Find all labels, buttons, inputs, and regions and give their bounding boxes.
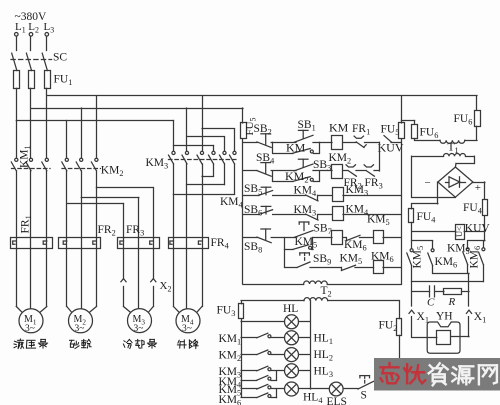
svg-text:ELS: ELS [327, 396, 347, 405]
secondary left wire [241, 300, 304, 302]
KM3 KM4 linkage dashed [169, 159, 239, 161]
series coil box rung5 [332, 231, 343, 245]
YH coil box [437, 331, 451, 345]
SC linkage dashed [11, 59, 52, 61]
wire KM2 pole to FR2 [81, 171, 83, 238]
interlock contact KM6 [346, 238, 348, 241]
pushbutton SB4 (stop) [243, 170, 257, 172]
selfhold branch wire [272, 142, 274, 153]
bus 1 (top) [47, 95, 477, 97]
wire [271, 170, 296, 172]
coil KM2 [332, 165, 343, 179]
motor M3 name 冷却泵 [123, 339, 132, 348]
char 泵 [150, 338, 155, 340]
thermal contact FR1 [354, 136, 363, 138]
lamp ELS [329, 382, 343, 396]
pushbutton SB8 (stop) [243, 237, 257, 239]
fuse FU2 [399, 301, 401, 319]
svg-text:HL: HL [283, 303, 298, 315]
pushbutton SB3 (start) [294, 164, 313, 171]
fuse FU5 left [242, 108, 244, 123]
DC negative to FU4 left [437, 182, 439, 204]
selfhold contact KM2 [273, 181, 293, 183]
contact KUV [384, 136, 391, 142]
switch SC [12, 53, 17, 70]
resistor R [435, 291, 444, 293]
char 却 [135, 340, 140, 342]
wire [343, 142, 356, 144]
svg-text:KUV: KUV [378, 140, 404, 154]
branch wires KM2 outputs to FR3 [96, 187, 153, 189]
connector X2 and motor M3 [123, 249, 125, 279]
DC positive to FU4 right [473, 182, 485, 184]
motor M2 [66, 249, 68, 307]
motor M4 [173, 249, 175, 307]
motor M4 [176, 309, 200, 333]
contact KM2 + lamp HL2 [241, 354, 257, 356]
transformer T1 primary [440, 140, 465, 143]
char 忘 [388, 363, 390, 367]
wire fuse to KM1 [46, 88, 48, 158]
motor M2 name 砂轮 [70, 340, 80, 348]
char 网 [478, 365, 480, 384]
chuck bridge contact KM5 left [412, 240, 433, 242]
fuse FU5 right [401, 96, 403, 123]
pushbutton SB7 (start) [294, 231, 313, 238]
bus 2 (mid) [31, 108, 243, 110]
pushbutton SB6 [243, 214, 259, 216]
watermark text 忘忧资源网 [381, 363, 399, 383]
svg-text:R: R [448, 296, 456, 308]
wire S to FU2 [375, 389, 400, 391]
wire L2 to SC [30, 36, 32, 50]
watermark band [374, 358, 500, 391]
capacitor C [412, 291, 430, 293]
thermal contact FR3 [364, 165, 373, 167]
motor M4 name 升降 [177, 340, 186, 348]
svg-text:C: C [427, 296, 435, 308]
interlock contact KM3 [306, 214, 319, 220]
lamp left rail [241, 319, 243, 397]
svg-text:KM: KM [286, 140, 306, 154]
wire KM2 pole to FR2 [96, 171, 98, 238]
contactor KM4 feeds (phase swap) [202, 128, 235, 130]
fuse FU6 right [476, 96, 478, 110]
contactor KM2 drops from buses [66, 121, 68, 158]
chuck bridge contact KM6 left [432, 241, 434, 249]
contactor KM4 contacts [209, 151, 216, 164]
svg-text:S: S [361, 389, 367, 401]
svg-text:SC: SC [53, 52, 67, 64]
switch S blade [358, 381, 375, 389]
pushbutton SB5 [243, 195, 259, 197]
motor M1 [19, 309, 43, 333]
svg-text:+: + [475, 182, 481, 194]
char 液 [14, 341, 17, 342]
motor M3 [128, 309, 152, 333]
KM3/KM4 output crossover to FR4 [202, 164, 204, 176]
node column rungs1-2 [379, 142, 381, 171]
wire [271, 142, 296, 144]
char 忧 [406, 364, 408, 383]
junction column to rung6 [284, 249, 286, 267]
motor M2 [69, 309, 93, 333]
control left rail [242, 140, 244, 285]
char 冷 [124, 340, 125, 343]
wire KM1 pole to FR1 [46, 171, 48, 238]
lamp ELS and switch S [310, 388, 329, 390]
char 压 [27, 339, 35, 341]
svg-text:−: − [425, 177, 431, 189]
interlock contact KM5 [341, 267, 343, 270]
coil KM3 [333, 188, 344, 202]
control bottom rail [243, 284, 304, 286]
char 轮 [82, 340, 87, 342]
pushbutton SB2 (stop) [243, 142, 257, 144]
svg-text:3~: 3~ [25, 324, 35, 334]
fuse FU6 left [401, 120, 414, 122]
coil KM5 [374, 231, 384, 244]
electromagnetic chuck YH [427, 322, 460, 353]
chuck bridge contact KM5 right [468, 240, 485, 242]
relay coil KUV [412, 231, 456, 233]
wire KM1 pole to FR1 [30, 171, 32, 238]
KM1 linkage dashed [12, 168, 51, 170]
svg-text:3~: 3~ [134, 324, 144, 334]
selfhold contact KM [273, 153, 293, 155]
chuck bridge contact KM6 right [483, 241, 485, 248]
contact KM1 + lamp HL1 [241, 337, 257, 339]
pushbutton SB9 [297, 262, 310, 267]
coil KM [332, 136, 343, 150]
svg-text:YH: YH [436, 311, 453, 323]
contacts KM3 KM4 + lamp HL3 [241, 370, 257, 372]
char 砂 [70, 339, 75, 341]
lamp right rail [310, 301, 312, 389]
wire [313, 142, 332, 144]
coil KM6 [374, 261, 384, 274]
char 降 [188, 340, 190, 348]
AC wire to bottom vertex [412, 197, 456, 199]
contactor KM3 contacts [169, 151, 176, 164]
chuck right feed [468, 273, 470, 306]
secondary right wire [328, 300, 400, 302]
junction column [284, 238, 286, 250]
connector X1 right [466, 310, 471, 313]
wire [343, 170, 348, 172]
wire fuse to KM1 [30, 88, 32, 158]
svg-text:3~: 3~ [75, 324, 85, 334]
thermal relay FR2 [59, 238, 101, 249]
terminal L2 [29, 33, 33, 37]
coil KM4 [333, 207, 344, 221]
pushbutton SB1 (start) [294, 135, 313, 142]
wire L3 to SC [46, 36, 48, 50]
chuck dc bus [412, 281, 484, 283]
wire L1 to SC [16, 36, 18, 50]
motor M1 [16, 249, 18, 307]
svg-text:KUV: KUV [465, 222, 491, 234]
interlock contact KM4 [306, 195, 319, 201]
KM2 linkage dashed [62, 168, 101, 170]
char 升 [178, 340, 179, 343]
connector X1 left [411, 282, 413, 306]
thermal relay FR1 [11, 238, 53, 249]
contactor KM3 feeds [173, 121, 175, 151]
thermal relay FR4 [169, 238, 209, 249]
svg-text:KM: KM [329, 121, 349, 135]
wire KM1 pole to FR1 [16, 171, 18, 238]
contacts KM5 KM6 + lamp HL4 [241, 388, 257, 390]
lamp HL [241, 321, 284, 323]
bus 3 (low) [16, 120, 173, 122]
motor M1 name 液压泵 [14, 339, 24, 349]
wire fuse to KM1 [16, 88, 18, 158]
contactor KM1 main contacts [11, 158, 18, 171]
char 泵 [41, 338, 46, 340]
control right rail [401, 140, 403, 285]
svg-text:U<: U< [454, 226, 464, 237]
selfhold contact KM5 [285, 249, 293, 251]
thermal contact FR2 [346, 165, 355, 167]
fuse FU3 [241, 301, 243, 304]
terminal L1 [14, 33, 18, 37]
wire to node [365, 142, 380, 144]
transformer T1 secondary [444, 153, 466, 156]
contactor KM2 main contacts [62, 158, 69, 171]
wire KM2 pole to FR2 [66, 171, 68, 238]
thermal relay FR3 [118, 238, 160, 249]
bridge rectifier VC [438, 167, 473, 197]
svg-text:3~: 3~ [182, 324, 192, 334]
fuse FU1 [14, 71, 20, 89]
terminal L3 [45, 33, 49, 37]
char 资 [430, 365, 433, 368]
char 源 [453, 367, 456, 369]
